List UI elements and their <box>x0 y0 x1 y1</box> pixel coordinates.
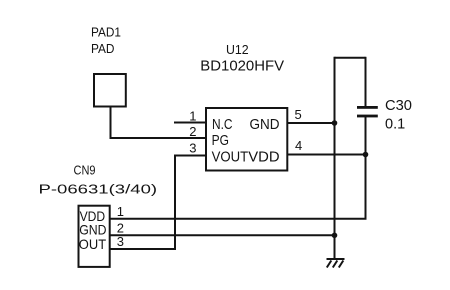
svg-text:N.C: N.C <box>212 116 233 133</box>
svg-text:CN9: CN9 <box>74 162 96 177</box>
svg-text:4: 4 <box>295 138 302 153</box>
svg-text:5: 5 <box>295 107 302 122</box>
svg-text:3: 3 <box>189 141 196 156</box>
svg-text:P-06631(3/40): P-06631(3/40) <box>39 182 158 197</box>
svg-text:GND: GND <box>250 116 280 133</box>
svg-text:C30: C30 <box>385 97 412 114</box>
svg-text:U12: U12 <box>226 42 249 57</box>
svg-text:3: 3 <box>117 234 124 249</box>
svg-text:OUT: OUT <box>79 236 107 252</box>
svg-text:PAD: PAD <box>91 41 115 56</box>
svg-text:2: 2 <box>189 124 196 139</box>
svg-text:0.1: 0.1 <box>385 116 405 133</box>
svg-text:VDD: VDD <box>248 148 279 165</box>
svg-text:PG: PG <box>212 132 229 149</box>
svg-text:1: 1 <box>117 204 124 219</box>
svg-text:2: 2 <box>117 220 124 235</box>
svg-text:PAD1: PAD1 <box>91 25 121 40</box>
svg-text:VOUT: VOUT <box>212 148 249 165</box>
svg-text:1: 1 <box>189 109 196 124</box>
svg-text:BD1020HFV: BD1020HFV <box>200 57 284 74</box>
